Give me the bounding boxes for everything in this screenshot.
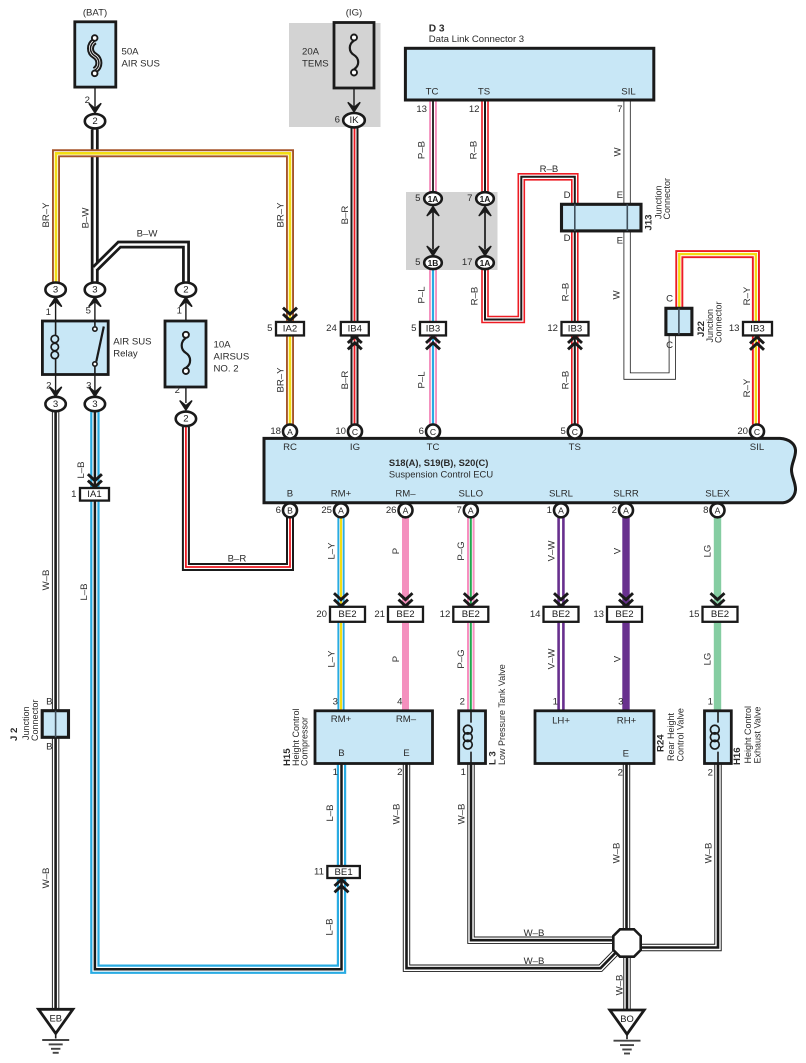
svg-text:Low Pressure Tank Valve: Low Pressure Tank Valve [497, 664, 507, 765]
svg-text:LH+: LH+ [552, 716, 570, 727]
svg-text:W–B: W–B [703, 843, 714, 864]
svg-text:C: C [754, 427, 760, 437]
junction connector J2 box [42, 711, 68, 738]
wire P-L from connector 1B to IB3 pin 5 [429, 269, 437, 322]
svg-text:RM+: RM+ [331, 714, 352, 725]
ECU pin 7 A (SLLO) [464, 503, 478, 517]
connector BE1 [327, 866, 360, 878]
svg-text:2: 2 [183, 414, 188, 425]
svg-text:5: 5 [411, 323, 416, 334]
wire BR-Y loop: relay oval 3 up, across, down to connector IA2 [56, 153, 290, 322]
svg-text:SLRL: SLRL [549, 488, 574, 499]
wire B-W from battery fuse oval 2 down to relay oval 3 [91, 130, 99, 283]
svg-text:IB3: IB3 [568, 324, 582, 335]
oval 2 below AIRSUS fuse [176, 412, 196, 426]
svg-text:L–Y: L–Y [326, 650, 337, 668]
svg-text:R–B: R–B [469, 287, 480, 306]
connector BE2 pin 12 [453, 607, 488, 622]
connector BE2 pin 13 [607, 607, 642, 622]
relay switch [94, 321, 96, 326]
wire W-B from L3 valve down, right into junction octagon [471, 764, 614, 941]
oval 2 below battery fuse [85, 114, 105, 128]
chevron into IA1 [88, 474, 102, 480]
connector IA1 [80, 488, 109, 501]
svg-text:Height Control: Height Control [743, 706, 753, 764]
svg-text:D: D [564, 233, 571, 244]
svg-text:2: 2 [183, 285, 188, 296]
svg-text:Exhaust Valve: Exhaust Valve [752, 707, 762, 764]
svg-text:13: 13 [416, 104, 427, 115]
svg-text:Connector: Connector [662, 178, 672, 220]
ECU pin 25 A (RM+) [334, 503, 348, 517]
svg-text:P–L: P–L [416, 371, 427, 389]
svg-text:6: 6 [335, 115, 340, 126]
connector IB4 [341, 322, 369, 336]
svg-text:AIR SUS: AIR SUS [122, 59, 160, 70]
svg-text:8: 8 [703, 505, 708, 516]
chevron up below IB3 5 [426, 343, 440, 349]
connector IB3 pin 5 [420, 322, 446, 336]
wire R-B from IB3 to ECU pin TS [571, 335, 579, 425]
svg-text:18: 18 [270, 426, 281, 437]
svg-text:2: 2 [92, 116, 97, 127]
ECU pin 6 B (B) [283, 503, 297, 517]
svg-text:1: 1 [547, 505, 552, 516]
junction connector J22 box [666, 308, 692, 334]
svg-text:W–B: W–B [524, 928, 545, 939]
svg-text:Connector: Connector [30, 699, 40, 741]
ECU pin 8 A (SLEX) [711, 503, 725, 517]
double arrow between 1A and 1A (TS) [479, 207, 491, 216]
arrow into oval 2 battery [89, 104, 101, 113]
wire W-B from relay oval 3 down through J2 to ground EB [52, 411, 59, 1009]
svg-text:1: 1 [71, 489, 76, 500]
svg-text:W–B: W–B [41, 868, 52, 889]
svg-text:13: 13 [729, 323, 740, 334]
svg-text:C: C [666, 340, 673, 351]
svg-text:B–R: B–R [340, 371, 351, 390]
wire oval 3 to relay pin 1 [55, 298, 57, 322]
ECU pin 10 C (IG) [348, 425, 362, 439]
svg-text:12: 12 [440, 609, 451, 620]
svg-text:J 2: J 2 [9, 728, 20, 741]
connector D3 Data Link Connector 3 box [405, 48, 653, 100]
svg-text:6: 6 [276, 505, 281, 516]
chevron up below BE1 [335, 886, 349, 892]
valve L3 Low Pressure Tank Valve box [459, 711, 486, 764]
svg-text:B–R: B–R [228, 554, 247, 565]
ECU pin 6 C (TC) [426, 425, 440, 439]
wire oval 3 to relay pin 5 [94, 298, 96, 322]
svg-text:13: 13 [593, 609, 604, 620]
svg-text:3: 3 [53, 399, 58, 410]
svg-text:IB4: IB4 [348, 324, 363, 335]
svg-text:P: P [391, 548, 402, 554]
wire P-L from IB3 to ECU pin TC [429, 335, 437, 425]
svg-text:L–B: L–B [325, 804, 336, 821]
svg-text:15: 15 [689, 609, 700, 620]
ECU pin 1 A (SLRL) [554, 503, 568, 517]
ground BO [610, 1010, 644, 1034]
svg-text:H16: H16 [732, 747, 743, 765]
svg-text:TEMS: TEMS [302, 59, 329, 70]
svg-text:BR–Y: BR–Y [41, 202, 52, 228]
svg-text:1: 1 [553, 697, 558, 708]
svg-text:A: A [287, 427, 293, 437]
svg-text:W: W [612, 147, 623, 157]
svg-text:RC: RC [283, 442, 297, 453]
wire TEMS fuse to oval IK [353, 87, 355, 107]
svg-text:W–B: W–B [614, 975, 625, 996]
svg-text:A: A [468, 506, 474, 516]
svg-text:E: E [617, 190, 623, 201]
svg-text:1: 1 [177, 306, 182, 317]
svg-text:B: B [46, 742, 52, 753]
svg-text:B–W: B–W [80, 207, 91, 229]
svg-text:L–B: L–B [324, 918, 335, 935]
svg-text:V: V [612, 655, 623, 662]
wire R-Y from J22 up, right, down to IB3 pin 13 [679, 254, 756, 323]
svg-text:P: P [391, 656, 402, 662]
svg-text:5: 5 [267, 323, 272, 334]
svg-text:AIRSUS: AIRSUS [214, 352, 250, 363]
oval 3 below relay pin 2 [45, 397, 65, 411]
svg-text:E: E [617, 236, 623, 247]
ECU pin 26 A (RM-) [399, 503, 413, 517]
svg-text:Connector: Connector [713, 301, 723, 343]
wire P from BE2 21 to H15 RM- [402, 622, 409, 711]
wire P-G from ECU SLLO to BE2 12 [467, 517, 475, 607]
svg-text:10A: 10A [214, 340, 232, 351]
svg-text:R–Y: R–Y [742, 378, 753, 397]
wire W-B from H16 valve down, left into junction octagon [640, 764, 718, 948]
svg-text:BR–Y: BR–Y [275, 202, 286, 228]
svg-text:BE2: BE2 [396, 609, 414, 620]
svg-text:W–B: W–B [456, 804, 467, 825]
valve R24 Rear Height Control Valve box [535, 711, 654, 764]
svg-text:W–B: W–B [611, 843, 622, 864]
svg-text:SIL: SIL [621, 87, 636, 98]
svg-text:BR–Y: BR–Y [275, 367, 286, 393]
fuse 10A AIRSUS NO.2 box [165, 321, 206, 387]
relay coil [55, 321, 57, 335]
connector IB3 pin 12 [562, 322, 589, 336]
svg-text:17: 17 [462, 257, 473, 268]
svg-text:7: 7 [456, 505, 461, 516]
oval 1A (TC top) [424, 192, 442, 205]
svg-text:(IG): (IG) [346, 8, 363, 19]
svg-text:A: A [403, 506, 409, 516]
svg-text:A: A [558, 506, 564, 516]
svg-text:RM–: RM– [395, 488, 416, 499]
connector IB3 pin 13 [743, 322, 772, 336]
svg-text:C: C [352, 427, 358, 437]
svg-text:7: 7 [467, 193, 472, 204]
svg-text:B: B [338, 748, 344, 759]
svg-text:6: 6 [419, 426, 424, 437]
arrow up into oval 3 (B-W) [89, 297, 101, 306]
svg-text:IB3: IB3 [426, 324, 440, 335]
svg-text:W: W [612, 290, 623, 300]
svg-text:25: 25 [321, 505, 332, 516]
oval 2 above AIRSUS fuse [176, 283, 196, 297]
svg-text:R–B: R–B [560, 283, 571, 302]
chevron into BE2 column x=470.8 [464, 593, 478, 599]
svg-text:E: E [623, 749, 629, 760]
oval 1A (TS bottom) [476, 256, 494, 269]
arrow up into oval 2 (B-W branch) [180, 297, 192, 306]
wire B-R from ECU pin B down, left, up to AIRSUS NO.2 fuse oval 2 [186, 427, 290, 567]
ECU pin 20 C (SIL) [750, 425, 764, 439]
svg-text:TC: TC [427, 442, 440, 453]
wire L-Y from BE2 20 to H15 RM+ [337, 622, 344, 711]
valve H16 Height Control Exhaust Valve box [705, 711, 732, 764]
svg-text:10: 10 [335, 426, 346, 437]
wire P-G from BE2 12 to valve L3 [467, 622, 475, 711]
svg-text:BE2: BE2 [552, 609, 570, 620]
svg-text:2: 2 [85, 95, 90, 106]
svg-text:W–B: W–B [524, 956, 545, 967]
svg-text:5: 5 [415, 193, 420, 204]
svg-text:RM–: RM– [396, 714, 417, 725]
wire W-B from R24 E down into junction octagon [623, 764, 630, 931]
svg-text:5: 5 [560, 426, 565, 437]
connector BE2 pin 21 [388, 607, 423, 622]
svg-text:C: C [572, 427, 578, 437]
oval 3 top of BR-Y [45, 283, 65, 297]
svg-text:IG: IG [350, 442, 360, 453]
chevron into IA2 [283, 308, 297, 314]
svg-text:20A: 20A [302, 47, 320, 58]
wire AIRSUS fuse pin 2 to oval 2 [185, 387, 187, 404]
svg-text:R–B: R–B [468, 141, 479, 160]
svg-text:2: 2 [460, 697, 465, 708]
chevron into BE2 column x=405.5 [399, 593, 413, 599]
svg-text:BE2: BE2 [711, 609, 729, 620]
svg-text:AIR SUS: AIR SUS [113, 337, 151, 348]
svg-text:V–W: V–W [546, 648, 557, 670]
svg-text:TS: TS [569, 442, 581, 453]
svg-text:7: 7 [617, 104, 622, 115]
wire oval 2 to AIRSUS fuse pin 1 [185, 298, 187, 322]
svg-text:50A: 50A [122, 47, 140, 58]
svg-text:20: 20 [737, 426, 748, 437]
wire P-B from D3 TC to connector 1A [429, 100, 437, 193]
shaded area around TEMS fuse [289, 23, 381, 127]
ECU box S18/S19/S20 Suspension Control ECU with torn right edge [264, 438, 796, 502]
svg-text:P–L: P–L [416, 286, 427, 304]
svg-text:TC: TC [426, 87, 439, 98]
svg-text:RH+: RH+ [617, 716, 637, 727]
svg-text:Control Valve: Control Valve [675, 708, 685, 761]
svg-text:C: C [666, 294, 673, 305]
svg-text:BO: BO [620, 1013, 634, 1024]
wire BR-Y from IA2 to ECU pin RC [286, 335, 294, 425]
svg-text:L–Y: L–Y [326, 542, 337, 560]
ECU pin 5 C (TS) [568, 425, 582, 439]
wire V-W from ECU SLRL to BE2 14 [557, 517, 564, 607]
svg-text:W–B: W–B [391, 804, 402, 825]
fuse 50A AIR SUS box [75, 22, 116, 87]
connector BE2 pin 14 [544, 607, 579, 622]
svg-text:1: 1 [333, 767, 338, 778]
svg-text:3: 3 [618, 697, 623, 708]
wire relay pin 3 to oval 3 [94, 374, 96, 392]
chevron into BE2 column x=717.5 [711, 593, 725, 599]
svg-text:BE2: BE2 [462, 609, 480, 620]
wire R-B from J13 D to IB3 pin 12 [571, 231, 579, 322]
wire W from D3 SIL to J13 pin E [623, 100, 630, 205]
svg-text:V–W: V–W [546, 540, 557, 562]
svg-text:W–B: W–B [41, 570, 52, 591]
svg-text:2: 2 [618, 768, 623, 779]
wire L-Y from ECU RM+ to BE2 20 [337, 517, 344, 607]
svg-text:26: 26 [386, 505, 397, 516]
svg-text:R24: R24 [655, 734, 666, 752]
svg-text:1: 1 [461, 767, 466, 778]
svg-text:Rear Height: Rear Height [666, 712, 676, 761]
svg-text:Relay: Relay [113, 349, 138, 360]
wire W from J13 E down, right, up into J22 [627, 231, 672, 376]
connector IA2 [276, 322, 304, 336]
svg-text:SLEX: SLEX [705, 488, 730, 499]
chevron up below IB3 12 [568, 343, 582, 349]
svg-text:1: 1 [708, 697, 713, 708]
svg-text:LG: LG [702, 653, 713, 666]
svg-text:B: B [287, 506, 293, 516]
arrow into oval IK [348, 103, 360, 112]
svg-text:Compressor: Compressor [299, 717, 309, 766]
compressor H15 Height Control Compressor box [315, 711, 433, 764]
svg-text:5: 5 [415, 257, 420, 268]
svg-text:1B: 1B [428, 258, 439, 268]
junction connector J13 box [562, 204, 642, 231]
arrow down into oval 2 below AIRSUS fuse [180, 401, 192, 410]
svg-text:3: 3 [92, 399, 97, 410]
wire P from ECU RM- to BE2 21 [402, 517, 409, 607]
chevron into BE2 column x=341 [334, 593, 348, 599]
wire relay pin 2 to oval 3 [55, 374, 57, 392]
chevron into BE2 column x=626 [619, 593, 633, 599]
oval 3 top of relay switch [85, 283, 105, 297]
svg-text:3: 3 [92, 285, 97, 296]
wire V-W from BE2 14 to R24 LH+ [557, 622, 564, 711]
svg-text:RM+: RM+ [331, 488, 352, 499]
svg-text:E: E [403, 748, 409, 759]
svg-text:IB3: IB3 [750, 324, 764, 335]
wire W-B from H15 E down, right, diagonal into junction octagon [407, 764, 616, 969]
chevron up below IB3 13 [750, 343, 764, 349]
svg-text:3: 3 [333, 697, 338, 708]
wire W-B from junction octagon to ground BO [623, 956, 630, 1010]
svg-text:SLRR: SLRR [613, 488, 639, 499]
svg-text:A: A [338, 506, 344, 516]
svg-text:1A: 1A [428, 194, 439, 204]
svg-text:4: 4 [397, 697, 403, 708]
wire battery fuse to oval 2 [94, 86, 96, 108]
svg-text:D: D [564, 190, 571, 201]
fuse 20A TEMS box [334, 23, 374, 89]
svg-text:A: A [715, 506, 721, 516]
chevron up below IB4 [348, 343, 362, 349]
svg-text:12: 12 [469, 104, 480, 115]
svg-text:12: 12 [547, 323, 558, 334]
svg-text:5: 5 [86, 306, 91, 317]
svg-text:S18(A), S19(B), S20(C): S18(A), S19(B), S20(C) [389, 457, 489, 468]
wire LG from BE2 15 to valve H16 [714, 622, 721, 711]
svg-text:24: 24 [326, 323, 337, 334]
svg-text:C: C [430, 427, 436, 437]
arrow down into oval 3 below relay pin 3 [89, 387, 101, 396]
wire V from BE2 13 to R24 RH+ [622, 622, 629, 711]
svg-text:B: B [46, 697, 52, 708]
double arrow between 1A and 1B (TC) [427, 207, 439, 216]
svg-text:Suspension Control ECU: Suspension Control ECU [389, 469, 493, 480]
wire R-B from D3 TS to connector 1A [481, 100, 489, 193]
junction octagon node [613, 929, 640, 956]
wire V from ECU SLRR to BE2 13 [622, 517, 629, 607]
relay AIR SUS Relay box [42, 321, 108, 375]
svg-text:B: B [287, 488, 293, 499]
svg-text:3: 3 [53, 285, 58, 296]
svg-text:Data Link Connector 3: Data Link Connector 3 [429, 34, 524, 45]
svg-text:V: V [612, 547, 623, 554]
svg-text:(BAT): (BAT) [83, 8, 107, 19]
svg-text:IA2: IA2 [283, 324, 297, 335]
svg-text:EB: EB [49, 1012, 62, 1023]
svg-text:A: A [623, 506, 629, 516]
svg-text:R–Y: R–Y [742, 286, 753, 305]
svg-text:2: 2 [708, 768, 713, 779]
svg-text:SIL: SIL [750, 442, 765, 453]
svg-text:IA1: IA1 [87, 489, 101, 500]
connector BE2 pin 20 [330, 607, 365, 622]
ground EB [39, 1009, 73, 1033]
svg-text:NO. 2: NO. 2 [214, 364, 239, 375]
wire L-B from relay oval 3 through IA1, down, across, up through BE1 to H15 pin B [95, 411, 342, 969]
svg-text:LG: LG [702, 545, 713, 558]
svg-text:B–R: B–R [340, 206, 351, 225]
svg-text:P–G: P–G [456, 541, 467, 560]
svg-text:IK: IK [349, 115, 359, 126]
svg-text:BE1: BE1 [335, 867, 353, 878]
oval 3 below relay pin 3 [85, 397, 105, 411]
wire B-W branch to oval 2 of AIRSUS NO.2 fuse [95, 245, 186, 283]
svg-text:SLLO: SLLO [459, 488, 484, 499]
svg-text:2: 2 [175, 385, 180, 396]
wire R-B loop from connector 1A down, across, up, to J13 pin D [485, 177, 575, 320]
svg-text:3: 3 [86, 381, 91, 392]
svg-text:P–B: P–B [416, 141, 427, 159]
svg-text:R–B: R–B [560, 371, 571, 390]
svg-text:2: 2 [46, 381, 51, 392]
shaded area around connectors 1A/1B [406, 192, 498, 270]
svg-text:1A: 1A [480, 194, 491, 204]
svg-text:14: 14 [530, 609, 541, 620]
oval IK below TEMS fuse [343, 113, 365, 127]
oval 1B (TC bottom) [424, 256, 442, 269]
oval 1A (TS top) [476, 192, 494, 205]
svg-text:2: 2 [397, 767, 402, 778]
svg-text:BE2: BE2 [615, 609, 633, 620]
svg-text:2: 2 [612, 505, 617, 516]
chevron into BE2 column x=561 [554, 593, 568, 599]
wire LG from ECU SLEX to BE2 15 [714, 517, 721, 607]
svg-text:BE2: BE2 [338, 609, 356, 620]
connector BE2 pin 15 [703, 607, 738, 622]
svg-text:11: 11 [314, 867, 324, 878]
svg-text:P–G: P–G [456, 649, 467, 668]
